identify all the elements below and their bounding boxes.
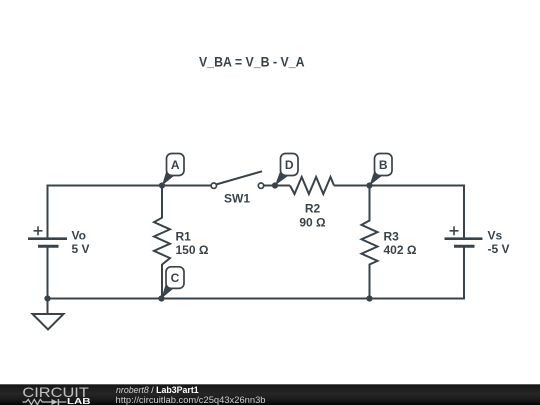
svg-text:-5 V: -5 V (488, 242, 510, 256)
switch SW1 (211, 171, 264, 188)
svg-text:R1: R1 (176, 230, 192, 244)
svg-text:A: A (171, 158, 180, 172)
svg-text:B: B (379, 158, 388, 172)
svg-text:5 V: 5 V (72, 242, 90, 256)
wire from switch to node D (261, 185, 290, 187)
junction node A (159, 182, 165, 188)
title formula V_BA = V_B - V_A (199, 55, 305, 70)
footer bar (0, 384, 540, 405)
resistor R3 (362, 186, 378, 299)
wire right side below Vs (463, 246, 465, 299)
wire left below Vo (47, 246, 49, 299)
node D label (275, 154, 298, 186)
wire from R2 to node B and down to Vs (334, 186, 464, 240)
footer text line 1: nrobert8 / Lab3Part1 (116, 385, 199, 395)
label R1 150 ohm (176, 230, 209, 258)
CircuitLab logo (22, 384, 90, 405)
svg-text:D: D (285, 158, 294, 172)
node A label (162, 154, 184, 186)
svg-text:http://circuitlab.com/c25q43x2: http://circuitlab.com/c25q43x26nn3b (116, 395, 266, 405)
voltage source Vs (445, 226, 483, 246)
svg-text:LAB: LAB (67, 396, 91, 405)
node C label (162, 267, 185, 299)
svg-text:nrobert8 / Lab3Part1: nrobert8 / Lab3Part1 (116, 385, 199, 395)
junction R3 bottom (366, 295, 372, 301)
wire bottom rail (47, 298, 466, 300)
node B label (370, 154, 393, 186)
voltage source Vo (28, 226, 67, 246)
label R3 402 ohm (384, 230, 417, 258)
svg-text:90 Ω: 90 Ω (299, 216, 326, 230)
label Vo 5 V (72, 229, 90, 257)
label Vs -5 V (488, 229, 510, 257)
svg-text:Vo: Vo (72, 229, 86, 243)
svg-text:402 Ω: 402 Ω (384, 243, 417, 257)
svg-text:Vs: Vs (488, 229, 503, 243)
junction ground (44, 295, 50, 301)
svg-text:C: C (171, 271, 180, 285)
ground (33, 299, 64, 330)
label R2 90 ohm (299, 202, 326, 230)
resistor R2 (290, 177, 334, 194)
junction node D (272, 182, 278, 188)
svg-text:R3: R3 (384, 230, 400, 244)
wire top from Vo to node A (48, 186, 215, 239)
label SW1 (224, 192, 250, 206)
junction node B (366, 182, 372, 188)
footer text line 2: url (116, 395, 266, 405)
svg-text:R2: R2 (305, 202, 321, 216)
svg-text:SW1: SW1 (224, 192, 250, 206)
svg-text:V_BA = V_B - V_A: V_BA = V_B - V_A (199, 55, 305, 70)
resistor R1 (154, 186, 170, 299)
junction node C (158, 295, 164, 301)
svg-text:150 Ω: 150 Ω (176, 243, 209, 257)
